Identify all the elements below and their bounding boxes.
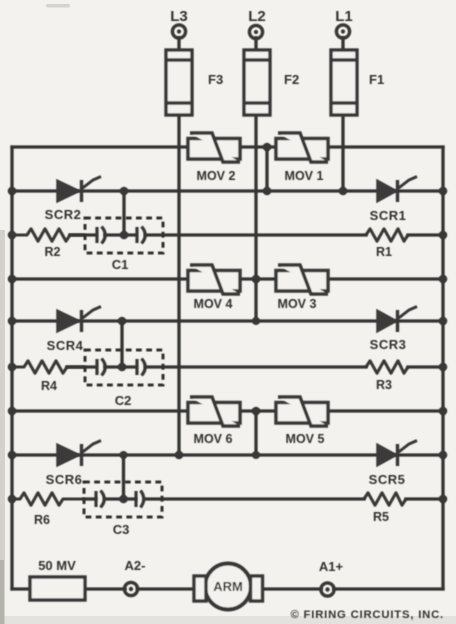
armature ARM bbox=[194, 564, 263, 610]
svg-text:F3: F3 bbox=[208, 72, 223, 87]
capacitor C1 (dashed enclosure with two series caps) bbox=[85, 218, 163, 253]
resistor R1 bbox=[366, 229, 408, 241]
svg-text:SCR4: SCR4 bbox=[47, 338, 84, 353]
svg-text:MOV 5: MOV 5 bbox=[286, 432, 325, 446]
fuse F3 bbox=[166, 50, 192, 115]
resistor R5 bbox=[364, 493, 406, 505]
svg-text:A1+: A1+ bbox=[319, 559, 344, 574]
thyristor SCR3 bbox=[377, 307, 417, 333]
svg-text:SCR6: SCR6 bbox=[46, 472, 83, 487]
terminal L2 bbox=[249, 25, 262, 38]
resistor R2 bbox=[12, 229, 85, 241]
wire row J bottom (armature line) bbox=[12, 587, 30, 590]
faint pencil smudge top-left bbox=[46, 4, 70, 8]
wire row B (SCR2/SCR1 line) bbox=[12, 189, 443, 192]
svg-text:L1: L1 bbox=[335, 8, 353, 25]
junction L1 to SCR row bbox=[339, 187, 348, 196]
svg-text:R6: R6 bbox=[34, 513, 50, 527]
varistor MOV2 bbox=[188, 133, 240, 162]
junction link row G bbox=[252, 407, 261, 416]
svg-text:SCR1: SCR1 bbox=[370, 208, 407, 223]
varistor MOV4 bbox=[188, 265, 240, 294]
varistor MOV1 bbox=[276, 133, 328, 162]
svg-text:R3: R3 bbox=[376, 378, 392, 392]
wire C1 tap bbox=[122, 191, 125, 235]
svg-text:SCR5: SCR5 bbox=[369, 472, 406, 487]
junction node A-B link top bbox=[263, 143, 272, 152]
wire node A-B link bbox=[265, 147, 268, 191]
junction C2 tap bottom bbox=[118, 363, 127, 372]
wire row I (R6/C3/R5 line) bbox=[84, 497, 96, 500]
wire row C (R2/C1/R1 line) bbox=[70, 233, 96, 236]
wire row E (SCR4/SCR3 line) bbox=[12, 319, 443, 322]
thyristor SCR6 bbox=[57, 441, 101, 467]
scan edge shading bbox=[0, 230, 5, 624]
capacitor C2 (dashed enclosure with two series caps) bbox=[85, 350, 163, 385]
wire row H (SCR6/SCR5 line) bbox=[12, 453, 443, 456]
fuse F2 bbox=[244, 50, 270, 115]
resistor R4 bbox=[12, 361, 85, 373]
terminal L1 bbox=[336, 25, 349, 38]
capacitor C3 (dashed enclosure with two series caps) bbox=[84, 482, 162, 517]
svg-text:R5: R5 bbox=[373, 510, 389, 524]
varistor MOV3 bbox=[276, 265, 328, 294]
svg-text:C2: C2 bbox=[115, 393, 132, 408]
terminal A2- bbox=[124, 582, 137, 595]
shunt 50 MV bbox=[30, 577, 85, 600]
wire L2 phase riser bbox=[254, 38, 257, 50]
junction dots left bus bbox=[8, 187, 17, 196]
svg-text:C1: C1 bbox=[112, 257, 129, 272]
svg-text:C3: C3 bbox=[113, 522, 130, 537]
thyristor SCR5 bbox=[377, 441, 417, 467]
svg-text:SCR2: SCR2 bbox=[45, 207, 82, 222]
wire row D (MOV4/MOV3 line) bbox=[12, 277, 443, 280]
resistor R6 bbox=[12, 493, 84, 505]
svg-text:50 MV: 50 MV bbox=[38, 558, 76, 573]
thyristor SCR4 bbox=[57, 307, 101, 333]
svg-text:MOV 2: MOV 2 bbox=[197, 169, 236, 183]
svg-text:SCR3: SCR3 bbox=[370, 337, 407, 352]
wire L3 phase riser bbox=[177, 38, 180, 50]
wire C2 tap bbox=[120, 321, 123, 367]
thyristor SCR1 bbox=[377, 177, 417, 203]
junction node A-B link bottom bbox=[263, 187, 272, 196]
wire row A (MOV1/MOV2 line) bbox=[12, 145, 443, 148]
junction C1 tap bottom bbox=[120, 231, 129, 240]
svg-text:MOV 6: MOV 6 bbox=[194, 432, 233, 446]
svg-text:© FIRING CIRCUITS, INC.: © FIRING CIRCUITS, INC. bbox=[291, 609, 445, 621]
junction link row H bbox=[252, 451, 260, 459]
resistor R3 bbox=[366, 361, 408, 373]
svg-text:F1: F1 bbox=[369, 72, 384, 87]
junction L3 row H bbox=[175, 451, 184, 460]
junction C1 tap top bbox=[120, 187, 129, 196]
junction C3 tap bottom bbox=[119, 495, 128, 504]
wire C3 tap bbox=[122, 455, 125, 499]
svg-text:L2: L2 bbox=[248, 8, 266, 25]
fuse F1 bbox=[331, 50, 357, 115]
junction L2 row E bbox=[252, 317, 260, 325]
svg-text:ARM: ARM bbox=[213, 579, 243, 594]
terminal A1+ bbox=[321, 583, 334, 596]
svg-text:R4: R4 bbox=[41, 379, 57, 393]
thyristor SCR2 bbox=[57, 177, 101, 203]
svg-text:MOV 3: MOV 3 bbox=[278, 297, 317, 311]
junction C2 tap top bbox=[118, 317, 127, 326]
junction C3 tap top bbox=[120, 451, 128, 459]
wire right bus bbox=[441, 147, 444, 589]
junction L2 row D bbox=[252, 275, 261, 284]
terminal L3 bbox=[172, 25, 185, 38]
wire L1 phase riser bbox=[341, 38, 344, 50]
wire row F (R4/C2/R3 line) bbox=[67, 365, 96, 368]
svg-text:L3: L3 bbox=[170, 8, 188, 25]
svg-text:R1: R1 bbox=[376, 245, 392, 259]
svg-text:A2-: A2- bbox=[125, 558, 146, 573]
wire row G (MOV6/MOV5 line) bbox=[12, 409, 443, 412]
junction dots right bus bbox=[439, 187, 448, 196]
svg-text:MOV 4: MOV 4 bbox=[194, 297, 233, 311]
wire left bus bbox=[10, 147, 13, 589]
svg-text:MOV 1: MOV 1 bbox=[285, 169, 324, 183]
svg-text:R2: R2 bbox=[45, 245, 61, 259]
svg-text:F2: F2 bbox=[284, 72, 299, 87]
varistor MOV6 bbox=[188, 397, 240, 426]
varistor MOV5 bbox=[276, 397, 328, 426]
wire node G-H link bbox=[254, 411, 257, 455]
